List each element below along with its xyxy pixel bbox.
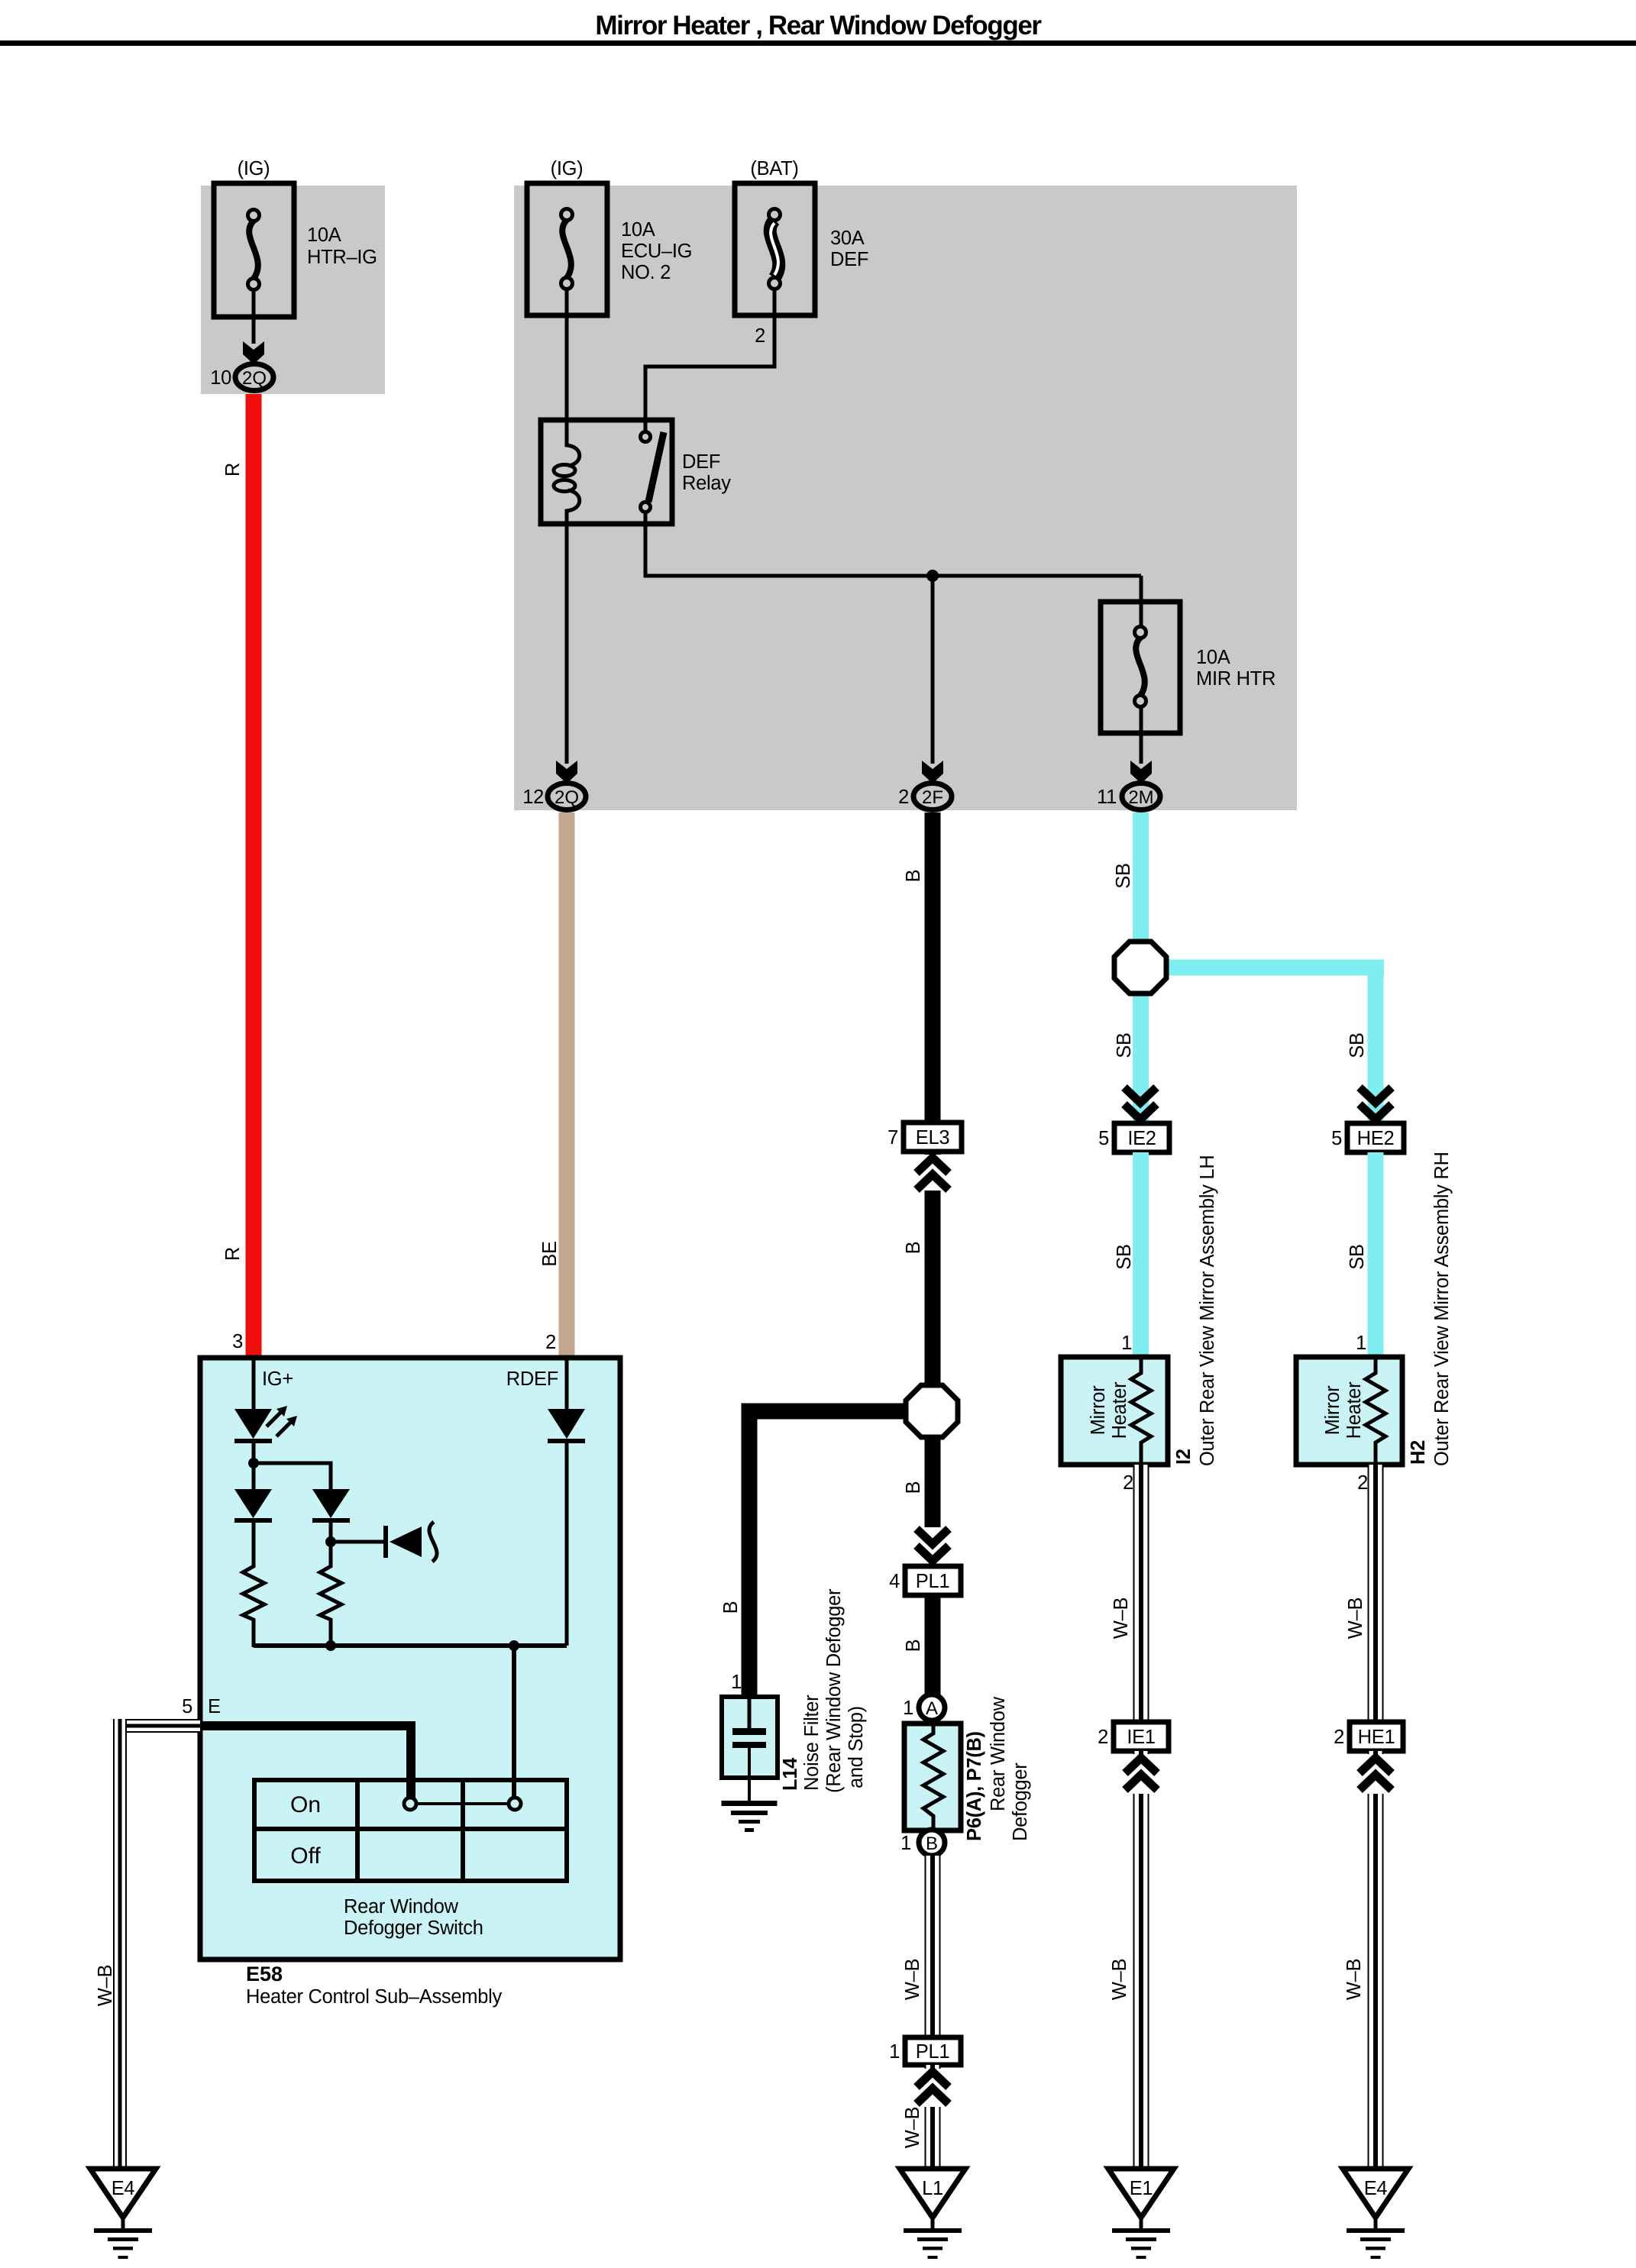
svg-text:1: 1: [903, 1698, 913, 1719]
wire E internal: [200, 1726, 411, 1798]
mirror heater RH resistor: [1366, 1357, 1385, 1465]
svg-text:1: 1: [1121, 1333, 1132, 1354]
wire D2 to resistor R2: [329, 1523, 333, 1565]
chevron below HE1: [1357, 1754, 1394, 1794]
svg-text:2: 2: [545, 1332, 556, 1353]
wire D4 down: [565, 1443, 569, 1646]
svg-text:R: R: [222, 463, 244, 477]
svg-text:Off: Off: [290, 1843, 321, 1869]
svg-text:Mirror: Mirror: [1088, 1385, 1109, 1436]
svg-text:Defogger Switch: Defogger Switch: [344, 1917, 483, 1939]
wire F3 to relay switch: [645, 289, 774, 422]
chevron above PL1: [914, 1527, 951, 1564]
svg-text:L1: L1: [922, 2178, 943, 2199]
svg-text:Noise Filter: Noise Filter: [801, 1695, 823, 1791]
wire IG+ internal: [252, 1358, 256, 1410]
wire W-B from PL1 to ground L1: [925, 2065, 941, 2166]
svg-text:5: 5: [1098, 1128, 1109, 1149]
svg-text:W–B: W–B: [1109, 1959, 1130, 2000]
wire F1 to 2Q: [252, 289, 256, 344]
svg-text:B: B: [903, 870, 924, 883]
wire R red from 2Q to heater control: [246, 394, 262, 1358]
svg-text:SB: SB: [1114, 1244, 1135, 1269]
wire junction to switch: [512, 1646, 516, 1798]
connector 4 PL1: [905, 1566, 961, 1595]
svg-text:1: 1: [900, 1833, 911, 1854]
svg-text:SB: SB: [1347, 1032, 1368, 1058]
junction octagon node (SB wire): [1114, 942, 1166, 993]
wire F4 to 2M: [1140, 708, 1143, 764]
wire W-B from E to ground E4 (horizontal): [113, 1719, 200, 1733]
svg-text:SB: SB: [1113, 863, 1134, 888]
svg-text:12: 12: [522, 787, 544, 808]
connector 2 HE1: [1350, 1722, 1403, 1751]
node junction R2 bus: [325, 1640, 336, 1651]
connector 5 HE2: [1347, 1123, 1404, 1152]
svg-text:IG+: IG+: [262, 1368, 293, 1390]
connector 5 IE2: [1114, 1123, 1169, 1152]
svg-text:and Stop): and Stop): [845, 1706, 867, 1788]
gray block right (junction block 2Q/2F/2M area): [514, 186, 1297, 810]
chevron above IE2: [1124, 1087, 1156, 1119]
node junction switch bus: [509, 1640, 519, 1651]
resistor R1: [243, 1563, 264, 1647]
svg-text:RDEF: RDEF: [506, 1368, 558, 1390]
arrow into 2Q: [243, 341, 264, 364]
wire to thermal diode: [331, 1540, 386, 1544]
bus wire bottom of switch circuit: [254, 1643, 567, 1648]
relay switch blade: [648, 432, 664, 502]
chevron below PL1: [914, 2069, 951, 2107]
svg-text:5: 5: [182, 1696, 192, 1717]
svg-text:On: On: [290, 1792, 321, 1817]
connector 2 2F: [913, 783, 952, 810]
switch grid lines: [355, 1780, 360, 1881]
rear window defogger switch box: [254, 1780, 567, 1881]
chevron above HE2: [1360, 1087, 1392, 1119]
svg-text:E58: E58: [246, 1963, 283, 1985]
wire branch to diode D2: [254, 1463, 331, 1491]
wire SB IE2 to mirror heater LH: [1133, 1152, 1149, 1357]
svg-text:Rear Window: Rear Window: [344, 1896, 459, 1917]
wire to junction: [252, 1443, 256, 1491]
defogger resistor element: [923, 1724, 943, 1830]
svg-text:L14: L14: [780, 1757, 801, 1791]
svg-text:W–B: W–B: [902, 2107, 923, 2148]
svg-text:B: B: [720, 1601, 742, 1614]
fuse F3 element (fusible link): [769, 209, 781, 289]
svg-text:IE2: IE2: [1127, 1128, 1156, 1149]
wire BE from 12 2Q to heater control: [559, 813, 575, 1358]
svg-text:30A: 30A: [830, 228, 865, 249]
svg-text:W–B: W–B: [95, 1965, 116, 2006]
connector 1 PL1 (lower): [905, 2037, 961, 2065]
svg-text:R: R: [222, 1247, 244, 1261]
terminal B rear window defogger: [919, 1830, 945, 1856]
svg-text:W–B: W–B: [902, 1959, 923, 2000]
svg-text:ECU–IG: ECU–IG: [621, 241, 692, 262]
switch contact right: [509, 1798, 521, 1810]
svg-text:(Rear Window Defogger: (Rear Window Defogger: [823, 1588, 845, 1793]
svg-text:IE1: IE1: [1127, 1727, 1155, 1748]
svg-text:NO. 2: NO. 2: [621, 262, 671, 283]
svg-text:Relay: Relay: [682, 473, 731, 494]
svg-text:2Q: 2Q: [242, 368, 267, 389]
svg-text:10A: 10A: [1196, 647, 1230, 668]
svg-text:HTR–IG: HTR–IG: [307, 247, 377, 268]
mirror heater RH box H2: [1296, 1357, 1402, 1465]
connector 10 2Q: [235, 364, 273, 391]
junction node on bus: [926, 570, 939, 582]
svg-text:Defogger: Defogger: [1010, 1762, 1031, 1841]
svg-text:A: A: [926, 1698, 938, 1719]
svg-text:Mirror Heater , Rear Window De: Mirror Heater , Rear Window Defogger: [595, 11, 1042, 40]
svg-text:(BAT): (BAT): [750, 158, 798, 179]
svg-text:(IG): (IG): [238, 158, 270, 179]
svg-text:4: 4: [889, 1571, 900, 1592]
svg-text:B: B: [903, 1242, 924, 1255]
svg-text:2: 2: [1098, 1727, 1108, 1748]
wire W-B from B terminal to PL1: [925, 1856, 941, 2037]
wire bus down to MIR HTR fuse: [1140, 576, 1143, 628]
wire W-B mirror LH to IE1: [1133, 1465, 1149, 1722]
wire W-B from E to ground E4 (vertical): [113, 1719, 127, 2166]
svg-text:DEF: DEF: [682, 451, 720, 473]
svg-text:Heater Control Sub–Assembly: Heater Control Sub–Assembly: [246, 1986, 502, 2008]
svg-text:SB: SB: [1347, 1244, 1368, 1269]
svg-text:P6(A), P7(B): P6(A), P7(B): [964, 1731, 985, 1841]
chevron below IE1: [1123, 1754, 1159, 1794]
arrow into 11 2M: [1130, 761, 1152, 783]
svg-text:Mirror: Mirror: [1322, 1385, 1343, 1436]
connector 2 IE1: [1114, 1722, 1169, 1751]
svg-text:(IG): (IG): [551, 158, 584, 179]
ground E4 (right): [1374, 2213, 1378, 2228]
svg-text:2: 2: [1334, 1727, 1344, 1748]
relay switch contact bottom: [641, 502, 651, 512]
wire F2 down to relay: [565, 289, 569, 422]
svg-text:B: B: [903, 1640, 924, 1653]
svg-text:10A: 10A: [621, 219, 655, 241]
svg-text:7: 7: [888, 1127, 898, 1149]
svg-text:B: B: [926, 1833, 938, 1854]
wire RDEF internal: [565, 1358, 569, 1410]
rear window defogger P6/P7 box: [904, 1724, 961, 1830]
arrow into 2 2F: [922, 761, 943, 783]
terminal A rear window defogger: [919, 1695, 945, 1720]
fuse F2 10A ECU-IG NO.2 box: [527, 183, 607, 315]
svg-text:3: 3: [232, 1331, 243, 1352]
svg-text:Heater: Heater: [1109, 1381, 1130, 1439]
svg-text:HE1: HE1: [1358, 1727, 1395, 1748]
thermal diode D3: [383, 1526, 388, 1558]
wire B branch to noise filter: [742, 1404, 925, 1420]
relay U1 DEF Relay box: [541, 420, 672, 524]
relay coil: [567, 420, 580, 466]
svg-text:E1: E1: [1130, 2178, 1153, 2199]
svg-text:W–B: W–B: [1111, 1598, 1132, 1639]
fuse F2 element: [561, 209, 573, 289]
svg-text:SB: SB: [1114, 1032, 1135, 1058]
capacitor C in noise filter: [748, 1697, 752, 1728]
ground at noise filter: [722, 1801, 778, 1832]
mirror heater LH resistor: [1131, 1357, 1151, 1465]
svg-text:EL3: EL3: [916, 1127, 950, 1149]
svg-text:2: 2: [898, 787, 909, 808]
connector 7 EL3: [904, 1123, 962, 1152]
fuse F4 element: [1135, 627, 1146, 707]
wire B black from 2F to rear window defogger A: [925, 813, 941, 1695]
gray block left (junction block 2Q area): [201, 186, 385, 394]
wire D1 to resistor R1: [252, 1523, 256, 1565]
svg-text:2F: 2F: [922, 787, 943, 808]
svg-text:2: 2: [1123, 1472, 1133, 1494]
svg-text:W–B: W–B: [1345, 1598, 1366, 1639]
svg-text:10A: 10A: [307, 225, 341, 246]
node junction below LED: [248, 1458, 259, 1468]
svg-text:MIR HTR: MIR HTR: [1196, 668, 1275, 690]
svg-text:PL1: PL1: [916, 2041, 949, 2063]
svg-text:Heater: Heater: [1343, 1381, 1365, 1439]
wire SB octagon to IE2: [1133, 993, 1149, 1123]
svg-text:1: 1: [889, 2041, 900, 2063]
svg-text:E: E: [208, 1696, 221, 1717]
svg-text:I2: I2: [1173, 1449, 1195, 1465]
svg-text:1: 1: [1356, 1333, 1366, 1354]
noise filter L14 box: [722, 1697, 778, 1778]
svg-text:E4: E4: [1364, 2178, 1388, 2199]
switch contact line: [410, 1802, 515, 1805]
switch contact left: [404, 1798, 416, 1810]
wire relay coil to 2Q: [565, 524, 569, 764]
connector 11 2M: [1122, 783, 1160, 810]
wire W-B mirror RH to HE1: [1368, 1465, 1384, 1722]
fuse F3 30A DEF box: [735, 183, 815, 315]
svg-text:Rear Window: Rear Window: [988, 1696, 1009, 1811]
svg-text:11: 11: [1097, 787, 1117, 808]
svg-text:H2: H2: [1408, 1440, 1429, 1465]
mirror heater LH box I2: [1061, 1357, 1168, 1465]
wire SB octagon to HE2: [1161, 960, 1384, 976]
wire relay switch to bus: [645, 524, 1141, 576]
wire W-B HE1 to ground E4: [1368, 1751, 1384, 2166]
diode D2: [312, 1489, 350, 1518]
LED indicator diode: [234, 1409, 272, 1439]
arrow into 12 2Q: [556, 761, 577, 783]
wire bus down to 2F: [931, 576, 935, 764]
wire SB HE2 to mirror heater RH: [1368, 1152, 1384, 1357]
wire SB from 2M to octagon: [1133, 813, 1149, 942]
svg-text:W–B: W–B: [1343, 1959, 1365, 2000]
svg-text:2M: 2M: [1128, 787, 1153, 808]
svg-text:10: 10: [210, 367, 231, 389]
svg-text:2: 2: [755, 325, 765, 347]
junction octagon node (black wire): [906, 1385, 958, 1437]
svg-text:DEF: DEF: [830, 249, 868, 270]
svg-text:2: 2: [1357, 1472, 1368, 1494]
svg-text:Outer Rear View Mirror Assembl: Outer Rear View Mirror Assembly RH: [1431, 1152, 1453, 1466]
resistor R2: [320, 1563, 341, 1647]
fuse F4 10A MIR HTR box: [1101, 602, 1180, 733]
svg-text:PL1: PL1: [916, 1571, 949, 1592]
connector 12 2Q: [548, 783, 586, 810]
svg-text:5: 5: [1331, 1128, 1342, 1149]
svg-text:Outer Rear View Mirror Assembl: Outer Rear View Mirror Assembly LH: [1197, 1155, 1218, 1466]
relay switch contact top: [644, 420, 648, 432]
LED arrows: [267, 1409, 284, 1426]
wire W-B IE1 to ground E1: [1133, 1751, 1149, 2166]
svg-text:BE: BE: [539, 1241, 561, 1266]
ground E1: [1140, 2213, 1143, 2228]
diode D4 RDEF: [548, 1409, 585, 1439]
svg-text:B: B: [903, 1481, 924, 1494]
svg-text:2Q: 2Q: [554, 787, 579, 808]
node junction thermal diode branch: [325, 1536, 336, 1547]
ground E4 (left): [121, 2213, 125, 2228]
top rule: [0, 40, 1636, 46]
heater control sub-assembly E58 box: [200, 1358, 620, 1959]
fuse F1 element: [248, 210, 260, 290]
svg-text:1: 1: [731, 1672, 742, 1693]
svg-text:HE2: HE2: [1357, 1128, 1395, 1149]
fuse F1 10A HTR-IG box: [214, 183, 294, 317]
ground L1: [931, 2213, 935, 2228]
diode D1: [234, 1489, 272, 1518]
svg-text:E4: E4: [112, 2178, 135, 2199]
chevron below EL3: [914, 1155, 951, 1191]
